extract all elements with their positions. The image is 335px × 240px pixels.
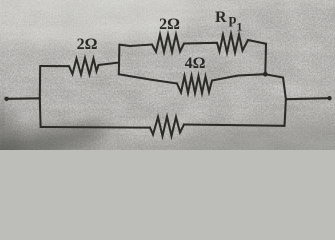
wire: resistor to inner box left [99, 63, 120, 66]
resistor 2 ohm (top branch) [152, 35, 184, 53]
wire: middle branch right segment [212, 74, 265, 80]
wire: outer left vertical [39, 66, 42, 127]
wire: top-left to resistor [40, 65, 69, 67]
svg-text:4Ω: 4Ω [185, 55, 206, 72]
resistor 2 ohm (left series) [69, 58, 99, 75]
wire: top-right corner vertical [264, 44, 267, 74]
svg-text:2Ω: 2Ω [159, 16, 180, 33]
wire: between top resistors [184, 42, 217, 45]
resistor 4 ohm [177, 76, 212, 93]
wire: top branch right segment [248, 40, 266, 44]
wire: bottom left segment [41, 126, 150, 129]
left terminal dot [4, 97, 8, 101]
wire: inner box left vertical [118, 45, 121, 75]
svg-text:R: R [215, 9, 227, 26]
wire: top branch left segment [119, 45, 152, 47]
resistor Rp1 [217, 34, 248, 53]
paper background [0, 0, 335, 150]
wire: bottom right segment [184, 125, 285, 126]
wire: right terminal lead [286, 98, 329, 99]
resistor (bottom, unlabeled) [150, 117, 184, 137]
wire: left terminal lead [8, 97, 40, 100]
svg-text:2Ω: 2Ω [77, 36, 98, 53]
wire: middle branch left segment [119, 74, 177, 83]
wire: outer right vertical [283, 78, 286, 127]
right terminal dot [327, 96, 331, 100]
wire: junction to right vertical [265, 74, 283, 77]
node junction dot [263, 72, 268, 77]
svg-text:1: 1 [237, 20, 243, 34]
